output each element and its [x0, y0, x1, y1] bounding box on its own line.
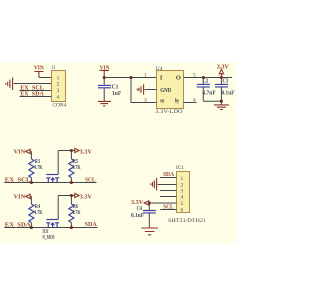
svg-text:1: 1	[144, 73, 147, 79]
junction R5/bus	[70, 181, 73, 184]
svg-text:3.3V: 3.3V	[80, 148, 93, 155]
junction VIN/C1	[103, 76, 106, 79]
sheet background	[0, 63, 236, 244]
svg-text:VIN: VIN	[34, 65, 44, 72]
wire down to C1	[103, 78, 105, 86]
power port VIN (arrow) left of R3	[14, 148, 32, 155]
svg-text:IC1: IC1	[176, 165, 184, 171]
svg-text:4.7K: 4.7K	[72, 165, 81, 171]
svg-text:en: en	[160, 97, 164, 104]
svg-text:EX_SDA: EX_SDA	[5, 222, 31, 229]
transistor Q1 N-MOS level shifter	[46, 151, 59, 183]
wire ground to pin2	[14, 83, 52, 85]
wire pin4 stub	[160, 196, 177, 198]
regulator U4 3.3V-LDO	[155, 66, 183, 115]
wire 3.3V to R6	[70, 196, 72, 205]
power port VIN (bar style) at J1 pin1	[34, 65, 44, 78]
wire caps bottom rail	[203, 100, 221, 102]
svg-text:C2: C2	[203, 78, 209, 84]
wire down to C3	[220, 78, 222, 85]
svg-text:C3: C3	[223, 78, 229, 84]
power port 3.3V (arrow up)	[217, 63, 230, 77]
power port 3.3V (arrow right)	[75, 148, 92, 155]
wire 3.3V to R5	[70, 151, 72, 160]
svg-text:3.3V-LDO: 3.3V-LDO	[155, 109, 183, 115]
wire R5 to bus	[70, 178, 72, 183]
resistor R5 4.7K	[69, 159, 81, 178]
transistor IC6 N_MOS level shifter	[42, 196, 59, 242]
wire ground to GND pin	[145, 89, 157, 91]
svg-text:VIN: VIN	[14, 148, 26, 155]
wire VIN rail to U4 pin1	[104, 77, 156, 79]
wire pin5	[149, 202, 177, 204]
svg-text:C4: C4	[137, 206, 142, 212]
svg-text:N_MOS: N_MOS	[42, 235, 55, 241]
svg-text:CON4: CON4	[52, 103, 66, 109]
power port VIN (bar style) above C1	[99, 64, 109, 77]
power port 3.3V (arrow right)	[75, 193, 92, 200]
svg-text:4.7uF: 4.7uF	[202, 91, 216, 97]
svg-text:1uF: 1uF	[112, 91, 122, 97]
ground (rotated earth) at J1 pin2	[6, 77, 13, 90]
svg-text:1: 1	[181, 176, 184, 182]
wire pin3 stub	[160, 190, 177, 192]
ground (rotated earth) at U4 GND pin	[137, 84, 143, 95]
junction 3.3V/C4	[148, 201, 151, 204]
connector IC1	[168, 165, 206, 224]
capacitor C4	[131, 206, 156, 219]
ground (earth) below C3	[214, 105, 229, 110]
wire pin6 SCL	[160, 209, 177, 211]
wire gate rail to 3.3V	[58, 150, 75, 152]
svg-text:SHT21/DTH21: SHT21/DTH21	[168, 218, 206, 224]
svg-text:by: by	[175, 97, 180, 104]
svg-text:SDA: SDA	[163, 171, 174, 178]
svg-text:O: O	[176, 75, 181, 82]
wire SDA bus	[4, 227, 97, 229]
junction R6/bus	[70, 226, 73, 229]
svg-text:IC6: IC6	[42, 229, 48, 235]
wire en branch to pin3	[131, 78, 157, 103]
resistor R4 4.7K	[29, 204, 43, 223]
svg-text:4: 4	[57, 94, 60, 100]
capacitor C1	[98, 84, 122, 97]
wire down to C4	[148, 203, 150, 210]
svg-text:3: 3	[181, 189, 184, 195]
wire C3 bottom	[220, 87, 222, 101]
svg-text:3.3V: 3.3V	[80, 193, 93, 200]
capacitor C2	[197, 78, 216, 96]
capacitor C3	[215, 78, 235, 96]
svg-text:EX_SDA: EX_SDA	[20, 91, 44, 98]
svg-text:4.7K: 4.7K	[34, 210, 43, 216]
svg-text:GND: GND	[160, 87, 171, 94]
svg-text:3.3V: 3.3V	[217, 63, 230, 70]
svg-text:1: 1	[57, 75, 60, 81]
ground (earth) below C4	[141, 228, 158, 235]
svg-text:4: 4	[193, 98, 196, 104]
ground (rotated earth) at pin2	[151, 178, 157, 191]
junction R6 top	[70, 194, 73, 197]
wire to ground	[220, 101, 222, 104]
wire EX_SCL to pin3	[20, 90, 52, 92]
svg-text:SCL: SCL	[163, 204, 174, 211]
wire by pin stub	[184, 102, 197, 104]
svg-text:EX_SCL: EX_SCL	[5, 177, 31, 184]
junction C2 top	[202, 76, 205, 79]
svg-text:SCL: SCL	[85, 177, 96, 184]
wire R6 to bus	[70, 223, 72, 228]
wire C4 to ground	[148, 213, 150, 228]
wire SCL bus	[4, 182, 96, 184]
connector J1 CON4	[52, 65, 67, 109]
junction en branch	[129, 76, 132, 79]
wire U4 output rail	[184, 77, 233, 79]
junction R5 top	[70, 149, 73, 152]
resistor R3 4.7K	[29, 159, 43, 178]
svg-text:4: 4	[181, 195, 184, 201]
junction R3/bus	[30, 181, 33, 184]
svg-text:5: 5	[193, 73, 196, 79]
junction R4/bus	[30, 226, 33, 229]
wire ground to pin2	[158, 184, 177, 186]
wire pin1 SDA	[160, 177, 177, 179]
svg-text:VIN: VIN	[14, 193, 26, 200]
wire R4 to bus	[30, 223, 32, 228]
svg-text:3: 3	[57, 88, 60, 94]
wire C1 to ground	[103, 88, 105, 101]
power port 3.3V (arrow left) at pin5	[131, 199, 149, 206]
wire R3 to bus	[30, 178, 32, 183]
svg-text:0.1uF: 0.1uF	[131, 213, 144, 219]
svg-text:6: 6	[181, 208, 184, 214]
svg-text:4.7K: 4.7K	[34, 165, 43, 171]
wire down to C2	[202, 78, 204, 85]
junction caps ground	[220, 100, 223, 103]
svg-text:4.7K: 4.7K	[72, 210, 81, 216]
ground (earth) below C1	[98, 101, 111, 105]
power port VIN (arrow) left of R4	[14, 193, 32, 200]
wire VIN to R4	[30, 196, 32, 204]
svg-text:C1: C1	[112, 84, 119, 90]
wire gate rail to 3.3V	[58, 195, 75, 197]
svg-text:2: 2	[57, 82, 60, 88]
wire VIN to pin1	[39, 77, 52, 79]
wire VIN to R3	[30, 151, 32, 159]
junction C3 top / 3.3V	[220, 76, 223, 79]
wire C2 bottom	[202, 87, 204, 101]
svg-text:0.1uF: 0.1uF	[222, 91, 235, 97]
resistor R6 4.7K	[69, 204, 81, 223]
svg-text:SDA: SDA	[85, 221, 97, 228]
wire EX_SDA to pin4	[20, 96, 52, 98]
svg-text:3: 3	[144, 98, 147, 104]
svg-text:5: 5	[181, 201, 184, 207]
